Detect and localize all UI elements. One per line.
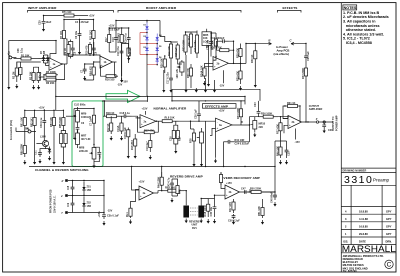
- ground MR10: [254, 133, 256, 135]
- resistor R5: [44, 71, 58, 76]
- svg-text:10uF: 10uF: [46, 21, 52, 24]
- svg-text:C23: C23: [254, 102, 257, 107]
- capacitor C3: [37, 70, 42, 83]
- svg-text:R38: R38: [190, 138, 193, 143]
- capacitor C10: [117, 46, 123, 58]
- potentiometer MR9: [73, 107, 79, 126]
- op-amp IC2a: [140, 115, 156, 128]
- svg-text:C31: C31: [35, 150, 38, 155]
- resistor R27b: [192, 129, 195, 145]
- svg-text:R12 1K: R12 1K: [107, 123, 110, 132]
- svg-text:R19 47K: R19 47K: [168, 46, 171, 56]
- svg-text:R27: R27: [179, 136, 182, 141]
- svg-text:RV1: RV1: [192, 227, 197, 230]
- wire main bus y96: [56, 76, 245, 110]
- wire C29 top rail: [44, 16, 63, 18]
- wire boost out: [229, 44, 255, 64]
- svg-text:C7 1uF: C7 1uF: [90, 117, 93, 126]
- resistor R33: [302, 62, 308, 82]
- wire IC3a out: [232, 124, 250, 126]
- diode D3: [145, 44, 148, 55]
- capacitor C6: [75, 27, 81, 42]
- svg-text:R46: R46: [178, 189, 181, 194]
- svg-text:RL8 10K: RL8 10K: [165, 117, 175, 120]
- svg-text:C3 47p: C3 47p: [39, 71, 42, 80]
- svg-text:DRAWING NUMBER: DRAWING NUMBER: [343, 170, 367, 173]
- capacitor C31: [38, 150, 42, 157]
- ground bank R82: [34, 160, 36, 162]
- ground under C29: [43, 27, 45, 29]
- capacitor C50: [232, 214, 236, 219]
- wire MR5 to C2B: [212, 32, 217, 34]
- svg-text:RL1: RL1: [126, 212, 129, 217]
- wire +15V rail stage2: [64, 20, 94, 28]
- resistor R81: [21, 114, 27, 129]
- svg-text:+15V: +15V: [142, 108, 148, 111]
- wire clipper top: [147, 21, 160, 23]
- capacitor C2B: [209, 33, 213, 52]
- resistor R25: [211, 46, 231, 51]
- svg-text:C13: C13: [112, 37, 115, 42]
- svg-text:BOOST AMPLIFIER: BOOST AMPLIFIER: [146, 6, 177, 10]
- capacitor C30: [40, 114, 46, 129]
- wire rail to clipper: [116, 21, 147, 29]
- wire fb join left: [211, 41, 219, 60]
- resistor R34: [237, 105, 243, 122]
- wire R1 to op-amp: [39, 55, 50, 59]
- wire to IC3b plus: [278, 117, 288, 119]
- capacitor C14: [124, 31, 130, 46]
- label diodes blue: [144, 25, 163, 59]
- wire feedback IC1a: [36, 64, 67, 80]
- wire green box internals: [74, 109, 99, 164]
- svg-text:R85 810K: R85 810K: [59, 117, 62, 128]
- resistor R30: [251, 44, 257, 67]
- ground R86A: [62, 160, 64, 162]
- ground under input wire: [8, 85, 10, 87]
- svg-text:R26 47K: R26 47K: [187, 68, 190, 78]
- svg-text:4K7 LIN: 4K7 LIN: [81, 138, 91, 141]
- svg-text:L304: L304: [40, 136, 46, 139]
- svg-text:R81 10K: R81 10K: [21, 117, 24, 127]
- capacitor C8: [97, 150, 101, 157]
- ground under R18n: [127, 154, 129, 156]
- svg-text:C47: C47: [241, 187, 246, 190]
- svg-text:R22 100K: R22 100K: [183, 40, 186, 51]
- pad d1: [65, 179, 67, 181]
- svg-text:C13 22uF: C13 22uF: [109, 29, 121, 32]
- wire IC2b plus: [205, 64, 214, 67]
- diode D7: [42, 55, 45, 63]
- svg-text:R9A 470: R9A 470: [90, 66, 93, 76]
- svg-text:C45 10u: C45 10u: [210, 206, 213, 216]
- svg-text:+15V: +15V: [89, 15, 95, 18]
- potentiometer MR6: [197, 128, 204, 147]
- capacitor C42: [170, 179, 174, 189]
- svg-text:R44 120K: R44 120K: [158, 177, 161, 188]
- capacitor C7: [80, 66, 86, 74]
- ground bank R83: [53, 160, 55, 162]
- wire TR4 down: [40, 147, 50, 151]
- wire output line: [302, 121, 334, 123]
- svg-text:+15V: +15V: [39, 107, 45, 110]
- svg-text:NORMAL AMPLIFIER: NORMAL AMPLIFIER: [154, 106, 188, 110]
- diode D8: [48, 147, 51, 155]
- ground post-clipper 5: [205, 88, 207, 90]
- wire drop to bus effects: [205, 121, 207, 166]
- svg-text:C18 0.1uF: C18 0.1uF: [124, 127, 127, 139]
- svg-text:R6 20K: R6 20K: [46, 82, 55, 85]
- wire R19n top: [128, 134, 135, 154]
- wire IC3a gnd drop: [215, 132, 217, 158]
- svg-text:C18 0.1u: C18 0.1u: [120, 112, 131, 115]
- svg-text:-15V: -15V: [117, 84, 123, 87]
- ground under R24A: [204, 81, 206, 83]
- wire R12 R14 top: [111, 116, 121, 120]
- resistor R49: [219, 172, 222, 185]
- svg-text:-15V: -15V: [107, 210, 113, 213]
- diode D6: [156, 55, 159, 65]
- resistor R7: [60, 27, 66, 42]
- svg-text:R82 1K1: R82 1K1: [30, 117, 33, 127]
- wire R2 top: [17, 62, 41, 67]
- ground post-clipper 1: [163, 88, 165, 90]
- green highlight box: [72, 101, 103, 166]
- svg-text:R10 470: R10 470: [86, 45, 89, 55]
- wire post-clipper bottoms: [164, 49, 215, 88]
- resistor R24: [214, 33, 217, 52]
- resistor R1: [14, 54, 39, 60]
- svg-text:-: -: [226, 187, 227, 191]
- diode Z52: [82, 197, 91, 213]
- resistor R85A: [60, 131, 63, 146]
- capacitor C47: [241, 187, 246, 194]
- capacitor C48: [273, 192, 277, 200]
- wire R3 C3 top: [34, 67, 39, 70]
- capacitor C51: [71, 181, 75, 196]
- svg-text:C48 68nF: C48 68nF: [270, 191, 273, 203]
- svg-text:15R: 15R: [87, 189, 92, 192]
- wire recovery fb: [240, 189, 276, 192]
- svg-text:R23 4K7: R23 4K7: [188, 36, 191, 46]
- svg-text:4-11-88: 4-11-88: [359, 217, 368, 221]
- svg-text:IC3,4 - MC4558: IC3,4 - MC4558: [346, 41, 372, 45]
- svg-text:R71 100: R71 100: [62, 11, 72, 14]
- capacitor C27: [322, 123, 326, 128]
- input jack J1: [9, 56, 12, 59]
- resistor R9A: [90, 64, 96, 78]
- op-amp IC3a: [216, 118, 233, 132]
- resistor R80: [21, 142, 27, 157]
- svg-text:GPY: GPY: [386, 209, 392, 213]
- diode D1: [145, 23, 148, 34]
- section label INPUT AMPLIFIER: [28, 6, 114, 13]
- resistor R9: [67, 42, 70, 56]
- svg-text:REVERB DRIVE AMP: REVERB DRIVE AMP: [170, 175, 203, 179]
- resistor R19: [168, 42, 172, 60]
- capacitor C20e: [197, 110, 201, 120]
- wire R9A join: [94, 62, 100, 80]
- svg-text:FROM POWER PCB: FROM POWER PCB: [50, 189, 53, 213]
- svg-text:C14A: C14A: [117, 125, 120, 132]
- wire bank rail: [25, 109, 64, 114]
- svg-text:-: -: [101, 57, 102, 61]
- svg-text:C30 0.1u: C30 0.1u: [40, 117, 43, 128]
- capacitor C20b: [176, 126, 179, 143]
- ground under C14: [128, 56, 130, 58]
- wire red ladder: [140, 33, 157, 65]
- capacitor C6a: [76, 126, 80, 132]
- svg-text:-: -: [141, 116, 142, 120]
- resistor R3: [29, 70, 35, 83]
- svg-text:C17 0.22u: C17 0.22u: [167, 72, 170, 84]
- ground under R14: [121, 136, 123, 138]
- ground C31: [39, 159, 41, 161]
- svg-text:(via effects): (via effects): [274, 52, 290, 56]
- resistor R31: [285, 102, 300, 108]
- svg-text:R17: R17: [105, 37, 108, 42]
- ground under R12: [110, 136, 112, 138]
- svg-text:Tlx: 825790: Tlx: 825790: [343, 269, 358, 273]
- resistor R20n: [149, 136, 152, 152]
- ground under R21A: [175, 149, 177, 151]
- reverb tank dashed link: [190, 208, 198, 215]
- wire footswitch link: [16, 128, 28, 132]
- svg-text:GPY: GPY: [386, 217, 392, 221]
- wire RL1 top: [131, 190, 140, 207]
- svg-text:-15V: -15V: [219, 85, 225, 88]
- resistor R36: [259, 112, 279, 118]
- resistor R46: [176, 183, 179, 196]
- wire recovery in: [215, 173, 226, 199]
- svg-text:18.8.88: 18.8.88: [359, 209, 368, 213]
- svg-text:GPY: GPY: [386, 232, 392, 236]
- ground under R30: [254, 83, 256, 85]
- wire R21A top: [174, 121, 178, 149]
- svg-text:R7 1K1: R7 1K1: [60, 30, 63, 39]
- svg-text:INPUT AMPLIFIER: INPUT AMPLIFIER: [28, 6, 57, 10]
- resistor R83: [50, 114, 56, 129]
- svg-text:-: -: [289, 117, 290, 121]
- wire bank bottoms: [25, 129, 64, 160]
- svg-text:C: C: [387, 262, 392, 269]
- resistor R82: [30, 114, 36, 129]
- svg-text:C20 1uF: C20 1uF: [195, 109, 198, 119]
- svg-text:C4 0.05/1uF: C4 0.05/1uF: [75, 21, 89, 24]
- ground C45: [214, 219, 216, 221]
- resistor R85: [59, 114, 65, 129]
- svg-text:C19 4u7: C19 4u7: [146, 141, 149, 151]
- svg-text:EFFECTS AMP: EFFECTS AMP: [205, 104, 228, 108]
- wire R37 R40: [281, 137, 287, 144]
- resistor R6: [44, 78, 58, 85]
- resistor R2: [13, 62, 19, 82]
- wire return down: [305, 44, 307, 52]
- ground under R40: [280, 160, 282, 162]
- svg-text:R48 100R: R48 100R: [204, 205, 207, 216]
- svg-text:3b: 3b: [292, 121, 295, 124]
- resistor R18: [118, 31, 124, 46]
- svg-text:15V-0-15V A.C.: 15V-0-15V A.C.: [54, 195, 57, 213]
- svg-text:16.8.88: 16.8.88: [359, 225, 368, 229]
- capacitor C24: [224, 140, 234, 144]
- wire D7 D8 join: [44, 55, 56, 66]
- svg-text:MARSHALL: MARSHALL: [342, 244, 396, 255]
- pad output: [323, 121, 325, 123]
- svg-text:-: -: [214, 59, 215, 63]
- svg-text:R28 47K: R28 47K: [236, 48, 239, 58]
- svg-text:C24 0.022uF: C24 0.022uF: [235, 143, 250, 146]
- resistor R86A: [64, 131, 67, 146]
- resistor R18n: [127, 128, 130, 140]
- wire R85A links: [61, 130, 65, 160]
- notes box: [343, 5, 389, 45]
- svg-text:AMPLIFIER: AMPLIFIER: [309, 108, 323, 111]
- wire clipper to bus: [146, 55, 148, 97]
- svg-text:-: -: [217, 120, 218, 124]
- resistor R24A: [200, 65, 206, 79]
- ground MR5 drop: [208, 82, 210, 84]
- resistor R15: [127, 46, 132, 58]
- wire R31 feedback: [283, 106, 300, 133]
- svg-text:29.6.88: 29.6.88: [359, 232, 368, 236]
- svg-text:R9 1K: R9 1K: [64, 48, 67, 55]
- panel divider: [340, 3, 342, 272]
- ground tank L1: [185, 219, 187, 221]
- ground post-clipper 3: [185, 88, 187, 90]
- svg-text:R51 10K: R51 10K: [258, 206, 261, 216]
- svg-text:+15V: +15V: [219, 110, 225, 113]
- reverb tank coil L2: [198, 206, 204, 218]
- svg-text:CLD 800a: CLD 800a: [74, 103, 86, 106]
- ground under C3: [38, 85, 40, 87]
- svg-text:R5 100K: R5 100K: [46, 71, 56, 74]
- capacitor C17: [167, 72, 173, 84]
- op-amp IC1a: [49, 58, 62, 71]
- ground under IC3a: [215, 159, 217, 161]
- ground under R3: [33, 85, 35, 87]
- resistor R16b: [105, 112, 119, 118]
- svg-text:Footswitch (FS1): Footswitch (FS1): [10, 120, 13, 140]
- ground tank L2: [200, 219, 202, 221]
- op-amp IC4b: [225, 185, 240, 199]
- wire tank L2 up: [201, 199, 208, 206]
- svg-text:C': C': [290, 39, 293, 42]
- potentiometer MR5: [202, 29, 212, 48]
- resistor R23: [188, 32, 192, 49]
- wire R51 top: [262, 199, 264, 205]
- svg-text:J02: J02: [25, 128, 30, 131]
- svg-text:15R: 15R: [87, 205, 92, 208]
- svg-text:R18 1K: R18 1K: [106, 112, 115, 115]
- section label BOOST AMPLIFIER: [118, 6, 241, 13]
- wire recovery out up: [275, 141, 281, 192]
- wire out up jog: [250, 117, 259, 125]
- ground R51: [262, 220, 264, 222]
- reverb tank coil L1: [183, 206, 189, 218]
- op-amp IC2b: [213, 57, 229, 71]
- ground under C25: [286, 160, 288, 162]
- ground post-clipper 6: [214, 88, 216, 90]
- capacitor C13: [112, 31, 118, 46]
- wire R34 bottom: [240, 121, 242, 125]
- svg-text:R1 10K: R1 10K: [21, 54, 30, 57]
- resistor R22: [183, 32, 187, 55]
- svg-text:C15 1uF: C15 1uF: [175, 47, 178, 57]
- capacitor C18: [119, 112, 132, 118]
- resistor R47: [232, 199, 235, 213]
- svg-text:R3 10K: R3 10K: [29, 71, 32, 80]
- diode D2: [145, 33, 148, 44]
- resistor R48: [207, 199, 210, 218]
- ground under C42: [171, 198, 173, 200]
- wire IC1a out up: [66, 39, 67, 64]
- svg-text:R36 100K: R36 100K: [261, 112, 272, 115]
- wire RL2 to tank: [184, 191, 186, 206]
- svg-text:10K LIN: 10K LIN: [176, 69, 179, 79]
- pad d2: [65, 194, 67, 196]
- resistor R12: [110, 120, 113, 134]
- wire R20n top: [149, 134, 151, 136]
- wire bus y101: [172, 89, 260, 104]
- svg-text:R29 47K: R29 47K: [236, 71, 239, 81]
- capacitor C15: [175, 43, 179, 61]
- svg-text:R17 47K: R17 47K: [144, 129, 154, 132]
- potentiometer MR8: [89, 145, 96, 163]
- ground under R18: [121, 78, 123, 80]
- svg-text:+15V: +15V: [109, 25, 115, 28]
- wire power rail 3: [68, 212, 104, 214]
- wire stage2 mid: [64, 42, 94, 55]
- wire bus drops: [132, 167, 162, 191]
- diode D8: [46, 55, 49, 63]
- svg-text:-15V: -15V: [123, 81, 129, 84]
- section label EFFECTS: [277, 6, 301, 13]
- svg-text:R33 220K: R33 220K: [302, 68, 305, 79]
- resistor R21A: [172, 126, 175, 143]
- resistor R14: [120, 120, 123, 134]
- wire R9 C5 join: [69, 40, 73, 59]
- diode Z51: [82, 182, 91, 196]
- op-amp IC3b out: [288, 116, 302, 129]
- wire C7 R9A link: [85, 64, 94, 80]
- wire IC1b feedback: [101, 62, 119, 76]
- ground C50: [233, 220, 235, 222]
- svg-text:R30 1K: R30 1K: [251, 54, 254, 63]
- wire post-clipper top: [160, 31, 197, 43]
- ground under C27: [323, 129, 325, 131]
- svg-text:+15V: +15V: [139, 180, 145, 183]
- resistor R16: [104, 75, 118, 82]
- svg-text:Cr9: Cr9: [67, 202, 70, 207]
- wire C24 link: [224, 125, 250, 167]
- svg-text:R11 1K2: R11 1K2: [89, 30, 92, 40]
- resistor R50: [248, 188, 265, 194]
- wire to IC2a minus: [132, 116, 141, 118]
- label box EFFECTS AMP: [203, 104, 237, 109]
- svg-text:C42 4.7u: C42 4.7u: [168, 177, 171, 188]
- wire return to output: [305, 82, 307, 122]
- capacitor C5: [71, 42, 75, 56]
- svg-text:R18 6K8: R18 6K8: [118, 33, 121, 43]
- capacitor C52: [71, 196, 75, 213]
- resistor R20: [161, 56, 167, 70]
- transistor TR4: [40, 136, 49, 147]
- svg-text:22K: 22K: [259, 126, 264, 129]
- wire -15V IC3b: [294, 129, 296, 140]
- svg-text:R15 1K: R15 1K: [129, 47, 132, 56]
- ground D8: [49, 156, 51, 158]
